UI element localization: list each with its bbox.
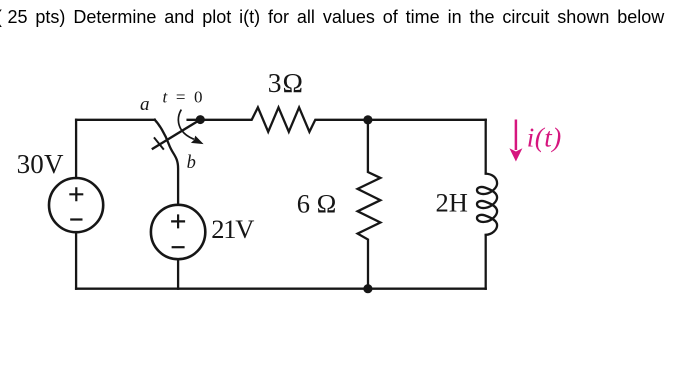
svg-text:t = 0: t = 0 xyxy=(163,87,203,106)
svg-text:30V: 30V xyxy=(17,149,64,179)
svg-text:25 pts) Determine and plot i(t: 25 pts) Determine and plot i(t) for all … xyxy=(8,7,666,27)
svg-text:a: a xyxy=(140,94,150,115)
svg-text:2H: 2H xyxy=(436,188,468,218)
svg-text:b: b xyxy=(187,153,196,173)
svg-text:i(t): i(t) xyxy=(527,122,562,152)
svg-text:3Ω: 3Ω xyxy=(268,67,304,98)
svg-text:6 Ω: 6 Ω xyxy=(297,189,337,219)
svg-text:21V: 21V xyxy=(211,214,254,244)
svg-text:(: ( xyxy=(0,7,2,27)
